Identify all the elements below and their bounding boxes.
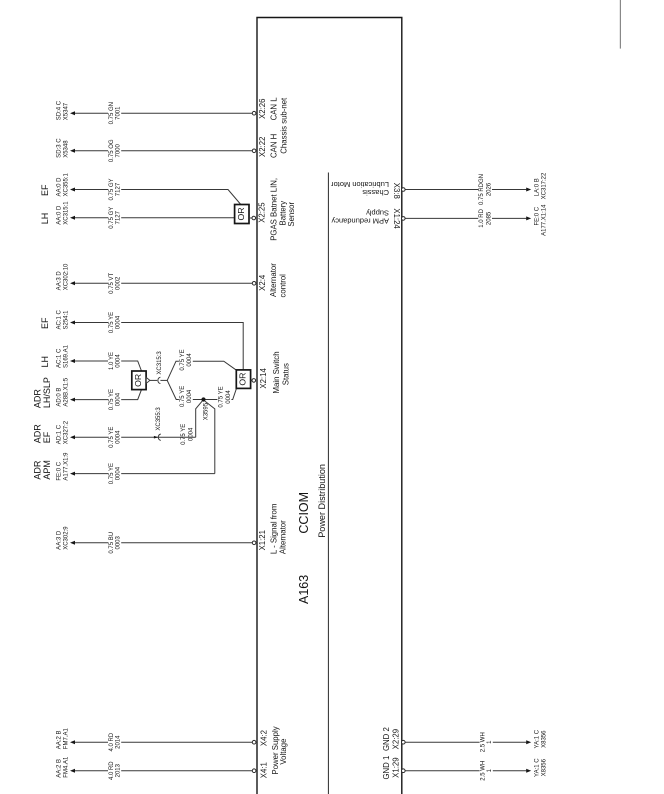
svg-text:0.75 YE: 0.75 YE (109, 463, 115, 484)
component box A163 CCIOM outline (257, 18, 402, 794)
svg-text:X2:25: X2:25 (257, 202, 266, 223)
svg-text:AA:3 D: AA:3 D (57, 271, 63, 291)
page border fragment (top right) (619, 0, 621, 49)
svg-text:SD:3 C: SD:3 C (57, 138, 63, 158)
svg-text:XC317:22: XC317:22 (542, 172, 548, 199)
svg-text:PGAS Batnet LIN,: PGAS Batnet LIN, (270, 178, 279, 241)
svg-text:7001: 7001 (116, 106, 122, 120)
pin X1:29 (402, 769, 406, 773)
svg-text:0003: 0003 (116, 535, 122, 549)
output triangle of OR U3 (146, 378, 150, 384)
wire X1:29 GND 1 2.5 WH 1 (405, 770, 527, 772)
svg-text:0.75 RDGN: 0.75 RDGN (479, 174, 485, 205)
svg-text:0.75 GY: 0.75 GY (109, 207, 115, 229)
inline connector XC355:3 arrow (154, 436, 158, 439)
svg-text:ADR: ADR (32, 424, 42, 444)
wire ADR EF 0.75 YE 0004 (75, 436, 196, 438)
svg-text:LH/SLP: LH/SLP (42, 377, 52, 408)
svg-text:YA:1 C: YA:1 C (535, 758, 541, 777)
svg-text:0004: 0004 (116, 430, 122, 444)
svg-text:0004: 0004 (116, 354, 122, 368)
pin X3:8 (402, 188, 406, 192)
svg-text:ADR: ADR (32, 460, 42, 480)
svg-text:XC302:9: XC302:9 (63, 526, 69, 550)
svg-text:EF: EF (40, 184, 50, 196)
pin X1:24 (402, 217, 406, 221)
svg-text:X4:1: X4:1 (260, 762, 269, 778)
svg-text:A177.X1:14: A177.X1:14 (542, 204, 548, 236)
svg-text:0.75 YE: 0.75 YE (181, 424, 187, 445)
pin X4:2 (252, 740, 256, 744)
wire OR1 to pin X2:25 (249, 217, 252, 219)
svg-text:X4:2: X4:2 (260, 730, 269, 746)
svg-text:Status: Status (282, 363, 291, 385)
splice OR U1 at X2:25 (235, 205, 249, 224)
svg-text:Battery: Battery (278, 201, 287, 226)
svg-text:LA:0 B: LA:0 B (535, 178, 541, 196)
svg-text:S254:1: S254:1 (63, 310, 69, 330)
svg-text:GND 1: GND 1 (382, 756, 391, 780)
pin X2:14 (252, 379, 256, 383)
svg-text:X8356: X8356 (542, 730, 548, 748)
svg-text:0.75 YE: 0.75 YE (109, 427, 115, 448)
wire EF 0.75 GY 7127 to OR splice (75, 190, 241, 205)
wire X2:26 CAN L 0.75 GN 7001 (75, 112, 254, 114)
svg-text:Lubrication Motor: Lubrication Motor (331, 180, 389, 189)
svg-text:0004: 0004 (116, 466, 122, 480)
pin X1:21 (252, 541, 256, 545)
svg-text:X2:26: X2:26 (258, 99, 267, 119)
svg-text:XC327:2: XC327:2 (63, 420, 69, 444)
svg-text:APM redundancy: APM redundancy (331, 217, 389, 226)
svg-text:XC315:1: XC315:1 (63, 201, 69, 225)
svg-text:X2:22: X2:22 (258, 137, 267, 157)
svg-text:0004: 0004 (187, 353, 193, 367)
svg-text:FE:0 C: FE:0 C (57, 461, 63, 480)
svg-text:EF: EF (40, 317, 50, 329)
svg-text:A28B.X1:5: A28B.X1:5 (63, 377, 69, 406)
svg-text:0004: 0004 (116, 315, 122, 329)
svg-text:XC315:3: XC315:3 (157, 351, 163, 375)
wire X2:22 CAN H 0.75 OG 7000 (75, 150, 254, 152)
svg-text:LH: LH (40, 213, 50, 225)
svg-text:X2:14: X2:14 (259, 368, 268, 389)
pin X4:1 (252, 769, 256, 773)
svg-text:0.75 YE: 0.75 YE (109, 312, 115, 333)
wire split branch up to OR2 (167, 361, 236, 380)
svg-text:CCIOM: CCIOM (297, 492, 311, 534)
svg-text:0.75 YE: 0.75 YE (180, 386, 186, 407)
wire node X3595 down-left to ADR EF wire (196, 401, 203, 437)
wire ADR APM 0.75 YE 0004 (75, 473, 215, 475)
svg-text:0002: 0002 (116, 276, 122, 290)
svg-text:0.75 YE: 0.75 YE (218, 386, 224, 407)
wire X3:8 chassis lubrication 0.75 RDGN 2026 (405, 189, 527, 191)
pin X2:29 (402, 740, 406, 744)
svg-text:0004: 0004 (226, 390, 232, 404)
svg-text:7127: 7127 (116, 182, 122, 196)
svg-text:X5348: X5348 (63, 140, 69, 158)
wire EF 0.75 YE 0004 to OR splice at X2:14 (75, 323, 244, 370)
svg-text:0004: 0004 (189, 427, 195, 441)
svg-text:0.75 YE: 0.75 YE (109, 389, 115, 410)
svg-text:1.0 RD: 1.0 RD (479, 208, 485, 227)
svg-text:AA:2 B: AA:2 B (57, 731, 63, 750)
svg-text:APM: APM (42, 460, 52, 480)
svg-text:A163: A163 (297, 575, 311, 604)
wire split branch down to node X3595 (167, 380, 201, 399)
svg-text:AD:0 B: AD:0 B (57, 388, 63, 407)
wire X1:24 APM redundancy 1.0 RD 2085 (405, 217, 527, 219)
svg-text:0.75 VT: 0.75 VT (109, 272, 115, 293)
svg-text:Main Switch: Main Switch (272, 351, 281, 393)
svg-text:X3:8: X3:8 (392, 183, 401, 199)
svg-text:AA:0 D: AA:0 D (57, 177, 63, 197)
svg-text:2.5 WH: 2.5 WH (481, 761, 487, 781)
svg-text:0004: 0004 (187, 389, 193, 403)
svg-text:AC:1 C: AC:1 C (57, 348, 63, 368)
svg-text:FM7.A1: FM7.A1 (63, 728, 69, 750)
svg-text:CAN H: CAN H (270, 134, 279, 158)
svg-text:X1:29: X1:29 (392, 757, 401, 777)
svg-text:S169.A1: S169.A1 (63, 344, 69, 368)
svg-text:0.75 GY: 0.75 GY (109, 178, 115, 200)
svg-text:XC355:1: XC355:1 (63, 172, 69, 196)
wire OR3 to inline connector XC315:3 (150, 379, 157, 381)
wire X4:1 power supply 4.0 RD 2013 (75, 770, 254, 772)
svg-text:OR: OR (238, 373, 248, 386)
svg-text:X8356: X8356 (542, 758, 548, 776)
svg-text:4.0 RD: 4.0 RD (109, 761, 115, 780)
svg-text:control: control (279, 274, 288, 298)
splice OR U2 at X2:14 (236, 370, 250, 389)
wire LH 1.0 YE 0004 to OR splice (75, 361, 142, 371)
wire X4:2 power supply 4.0 RD 2014 (75, 741, 254, 743)
svg-text:L - Signal from: L - Signal from (270, 504, 279, 554)
svg-text:AA:3 D: AA:3 D (57, 530, 63, 550)
pin X2:25 (252, 216, 256, 220)
svg-text:0.75 YE: 0.75 YE (180, 349, 186, 370)
wire X1:21 L-signal 0.75 BU 0003 (75, 542, 254, 544)
pin X2:22 (252, 149, 256, 153)
svg-text:AA:0 D: AA:0 D (57, 205, 63, 225)
svg-text:X1:24: X1:24 (392, 208, 401, 229)
wire OR2 to pin X2:14 (251, 379, 253, 381)
svg-text:YA:1 C: YA:1 C (535, 729, 541, 748)
svg-text:FM4.A1: FM4.A1 (63, 756, 69, 778)
svg-text:2014: 2014 (116, 735, 122, 749)
pin X2:26 (252, 111, 256, 115)
svg-text:LH: LH (40, 356, 50, 368)
svg-text:OR: OR (133, 374, 143, 387)
wire XC315:3 to splice point (160, 379, 167, 381)
pin X2:4 (252, 282, 256, 286)
svg-text:X5347: X5347 (63, 102, 69, 120)
inline connector XC315:3 (158, 377, 160, 383)
svg-text:2.5 WH: 2.5 WH (481, 732, 487, 752)
wire node X3595 to OR2 bottom (206, 389, 237, 400)
svg-text:X3595: X3595 (203, 402, 209, 420)
svg-text:A177.X1:9: A177.X1:9 (63, 452, 69, 481)
svg-text:EF: EF (42, 431, 52, 443)
svg-text:Supply: Supply (366, 209, 389, 218)
svg-text:0.75 GN: 0.75 GN (109, 102, 115, 124)
svg-text:AA:2 B: AA:2 B (57, 759, 63, 778)
svg-text:AD:1 C: AD:1 C (57, 424, 63, 444)
svg-text:7127: 7127 (116, 210, 122, 224)
svg-text:X2:4: X2:4 (258, 274, 267, 291)
svg-text:0004: 0004 (116, 392, 122, 406)
wire node X3595 down-right to ADR APM wire (205, 401, 215, 474)
svg-text:FE:0 C: FE:0 C (535, 206, 541, 225)
svg-text:Alternator: Alternator (269, 263, 278, 297)
svg-text:Power Distribution: Power Distribution (317, 464, 327, 538)
svg-text:7000: 7000 (116, 143, 122, 157)
svg-text:CAN L: CAN L (270, 97, 279, 121)
svg-text:2085: 2085 (486, 211, 492, 225)
wire X2:29 GND 2 2.5 WH 1 (405, 741, 527, 743)
wire X2:4 alternator control 0.75 VT 0002 (75, 282, 254, 284)
svg-text:2013: 2013 (116, 763, 122, 777)
svg-text:XC302:10: XC302:10 (63, 263, 69, 290)
svg-text:X2:29: X2:29 (392, 729, 401, 749)
svg-text:X1:21: X1:21 (258, 530, 267, 550)
svg-text:0.75 BU: 0.75 BU (109, 532, 115, 554)
svg-text:Chassis sub-net: Chassis sub-net (280, 97, 289, 154)
svg-text:Sensor: Sensor (287, 201, 296, 226)
svg-text:Alternator: Alternator (278, 520, 287, 554)
svg-text:Voltage: Voltage (279, 739, 288, 765)
wire LH 0.75 GY 7127 to OR splice (75, 217, 235, 219)
power distribution divider line (327, 173, 329, 794)
svg-text:AC:1 C: AC:1 C (57, 309, 63, 329)
svg-text:0.75 OG: 0.75 OG (109, 139, 115, 162)
svg-text:1.0 YE: 1.0 YE (109, 352, 115, 370)
svg-text:Chassis: Chassis (362, 188, 389, 197)
wire ADR LH/SLP 0.75 YE 0004 to OR splice (75, 390, 142, 400)
svg-text:4.0 RD: 4.0 RD (109, 732, 115, 751)
svg-text:SD:4 C: SD:4 C (57, 100, 63, 120)
node X3595 junction dot (201, 397, 205, 401)
svg-text:2026: 2026 (486, 182, 492, 196)
svg-text:ADR: ADR (32, 389, 42, 409)
svg-text:XC355:3: XC355:3 (156, 407, 162, 431)
svg-text:OR: OR (236, 207, 246, 220)
svg-text:GND 2: GND 2 (382, 727, 391, 751)
splice OR U3 (132, 371, 146, 390)
